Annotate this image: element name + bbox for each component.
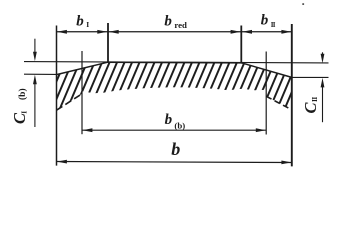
svg-text:red: red: [174, 20, 187, 30]
svg-text:(b): (b): [17, 88, 28, 100]
svg-text:b: b: [164, 13, 172, 29]
svg-text:C: C: [301, 102, 320, 114]
svg-text:b: b: [76, 14, 84, 30]
svg-text:b: b: [261, 13, 269, 29]
svg-text:(b): (b): [174, 121, 185, 131]
svg-text:II: II: [310, 97, 319, 102]
svg-text:I: I: [19, 111, 28, 114]
svg-text:b: b: [165, 112, 173, 128]
svg-text:I: I: [86, 20, 89, 29]
svg-text:b: b: [171, 139, 180, 159]
